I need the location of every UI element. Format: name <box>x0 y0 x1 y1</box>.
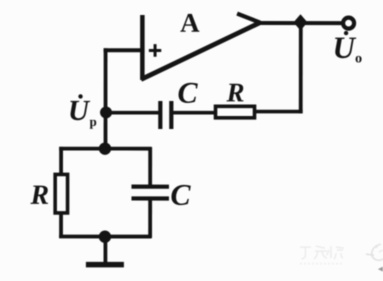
watermark <box>300 244 383 272</box>
wire : op-amp output <box>259 21 342 25</box>
wire : C to R (feedback) <box>173 111 215 115</box>
capacitor C (feedback) <box>160 101 171 129</box>
wire : ground stub <box>104 237 108 263</box>
wire : left branch upper <box>59 147 63 175</box>
label C (feedback) <box>179 83 198 103</box>
node Up <box>100 106 112 118</box>
wire : left branch lower <box>59 212 63 238</box>
wire : Up down to RC network <box>104 112 108 150</box>
wire : network top <box>59 147 151 151</box>
node : network bottom junction <box>99 231 111 243</box>
node : output junction (diamond) <box>293 14 307 30</box>
wire : left vertical (+input down to node Up) <box>104 48 108 114</box>
label A <box>180 14 199 32</box>
label Uo <box>335 31 362 63</box>
wire : R to feedback vertical <box>254 110 303 114</box>
label C (parallel) <box>171 185 190 205</box>
wire : feedback vertical (output node down) <box>299 23 303 113</box>
label R (feedback) <box>227 84 244 102</box>
resistor R (left, vertical) <box>55 174 67 213</box>
op-amp A : hypotenuse <box>141 22 260 79</box>
wire : right branch upper <box>148 147 152 186</box>
node : network top junction <box>99 142 111 154</box>
op-amp A : top apex stroke <box>237 14 260 23</box>
op-amp A : plus sign <box>149 44 161 57</box>
ground <box>86 262 124 268</box>
capacitor C (parallel, horizontal plates) <box>131 187 169 199</box>
terminal Uo (open circle) <box>343 18 354 29</box>
label Up <box>70 94 96 129</box>
wire : network bottom <box>59 235 151 239</box>
op-amp A : left edge <box>140 15 145 80</box>
wire : right branch lower <box>148 199 152 238</box>
wire : + input horizontal <box>104 48 142 52</box>
label R (left) <box>30 186 48 204</box>
resistor R (feedback) <box>216 106 255 118</box>
wire : node Up to capacitor C <box>106 111 158 115</box>
